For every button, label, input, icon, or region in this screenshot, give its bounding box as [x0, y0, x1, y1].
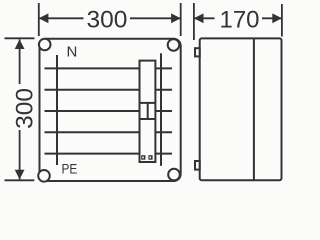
depth dimension line right segment: [262, 17, 282, 19]
height dimension extension line top: [5, 37, 35, 39]
side view enclosure outline: [200, 38, 282, 180]
depth dimension extension line right: [281, 4, 283, 37]
width dimension arrow left: [39, 13, 49, 23]
width dimension extension line left: [38, 3, 40, 36]
busbar row 3: [45, 110, 173, 112]
left mounting rail: [56, 55, 58, 165]
width dimension line right segment: [130, 17, 180, 19]
corner screw top-right: [168, 39, 180, 51]
depth dimension arrow left: [194, 13, 204, 23]
side view lid split line: [253, 39, 255, 180]
terminal screw right: [148, 155, 152, 160]
terminal block cross-piece bottom line: [140, 118, 156, 120]
busbar row 4: [45, 131, 173, 133]
front view enclosure outline: [40, 39, 181, 181]
busbar row 2: [45, 89, 173, 91]
svg-text:170: 170: [220, 7, 260, 34]
side view bottom lid clip: [195, 161, 200, 170]
side view top lid clip: [195, 48, 200, 56]
height dimension extension line bottom: [5, 179, 35, 181]
svg-text:N: N: [67, 44, 78, 61]
height dimension arrow top: [15, 39, 25, 49]
height dimension line top segment: [19, 39, 21, 84]
corner screw top-left: [39, 39, 51, 51]
svg-text:300: 300: [87, 6, 128, 33]
depth dimension line left segment: [195, 17, 215, 19]
width dimension extension line right: [180, 3, 182, 36]
busbar row 5: [45, 153, 173, 155]
height dimension line bottom segment: [19, 130, 21, 179]
busbar row 1: [45, 67, 173, 69]
depth dimension extension line left: [193, 3, 195, 40]
height dimension arrow bottom: [15, 170, 25, 180]
svg-text:300: 300: [11, 88, 38, 129]
terminal screw left: [141, 155, 145, 160]
terminal block cross-piece top line: [140, 102, 156, 104]
corner screw bottom-left: [38, 170, 50, 182]
terminal block body: [140, 61, 156, 162]
width dimension arrow right: [171, 13, 181, 23]
depth dimension arrow right: [272, 13, 282, 23]
width dimension line left segment: [40, 17, 84, 19]
svg-text:PE: PE: [62, 161, 78, 177]
terminal block center divider: [147, 103, 149, 119]
corner screw bottom-right: [168, 169, 180, 181]
right mounting rail: [160, 53, 162, 166]
